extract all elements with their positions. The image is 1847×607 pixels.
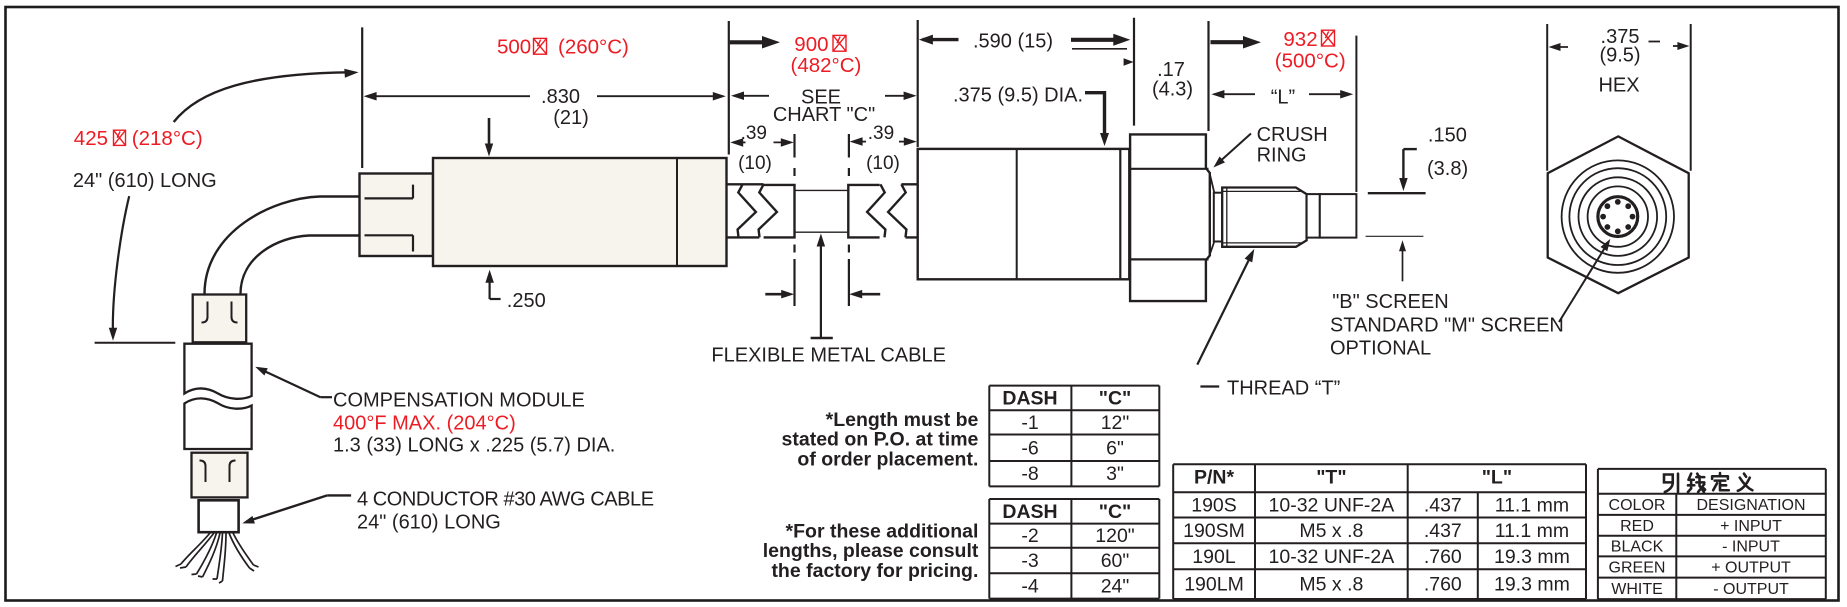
- extension line x=794.5 (dashed): [793, 134, 795, 306]
- svg-text:-1: -1: [1021, 412, 1038, 434]
- hex view extension line left: [1546, 24, 1548, 171]
- svg-text:*Length must be: *Length must be: [826, 409, 979, 431]
- flexible cable band right edges: [901, 184, 917, 237]
- svg-text:19.3 mm: 19.3 mm: [1494, 574, 1570, 596]
- svg-text:11.1 mm: 11.1 mm: [1495, 494, 1569, 516]
- table DASH/C upper: [989, 385, 1159, 387]
- svg-text:-3: -3: [1021, 550, 1038, 572]
- table lead-wire definition: [1598, 468, 1826, 470]
- second body: [918, 149, 1130, 279]
- dim .39 right: [853, 141, 867, 143]
- svg-text:.250: .250: [507, 290, 546, 312]
- svg-text:-2: -2: [1021, 525, 1038, 547]
- missing-glyph box: [534, 38, 547, 54]
- svg-text:190LM: 190LM: [1184, 574, 1244, 596]
- dim .39 left: [733, 141, 746, 143]
- extension line x=1134: [1133, 18, 1135, 126]
- extension line x=362: [361, 27, 363, 168]
- missing-glyph box: [114, 130, 126, 145]
- thread relief line: [1226, 188, 1228, 247]
- missing-glyph box: [1322, 30, 1335, 46]
- screen tip: [1320, 194, 1357, 238]
- leader thread T: [1197, 255, 1251, 365]
- dim .375 hex arrows: [1552, 46, 1569, 48]
- tick after .375: [1649, 41, 1661, 43]
- svg-text:(3.8): (3.8): [1427, 158, 1468, 180]
- svg-text:.150: .150: [1428, 124, 1467, 146]
- flexible metal cable pointer arrow: [820, 240, 822, 338]
- svg-text:4 CONDUCTOR #30 AWG CABLE: 4 CONDUCTOR #30 AWG CABLE: [357, 489, 654, 511]
- leader to connector face: [1559, 244, 1608, 323]
- dim .250 elbow arrow: [489, 275, 491, 299]
- connector crimp marks: [365, 185, 414, 199]
- white block right: [848, 185, 879, 238]
- bottom connector marks: [200, 461, 206, 483]
- svg-text:BLACK: BLACK: [1611, 539, 1664, 556]
- svg-text:WHITE: WHITE: [1611, 581, 1663, 598]
- svg-text:.590 (15): .590 (15): [973, 31, 1053, 53]
- svg-text:"C": "C": [1099, 387, 1132, 409]
- hexagon outline: [1548, 136, 1689, 293]
- crush ring: [1210, 174, 1215, 255]
- break stroke D: [888, 184, 906, 237]
- svg-text:12": 12": [1101, 412, 1130, 434]
- svg-text:.39: .39: [741, 123, 767, 144]
- svg-text:6": 6": [1106, 437, 1124, 459]
- svg-text:.760: .760: [1424, 546, 1462, 568]
- module bottom connector: [192, 453, 248, 498]
- svg-text:"C": "C": [1099, 501, 1132, 523]
- cable wire upper (from connector, 90-degree bend): [205, 197, 361, 295]
- svg-text:DASH: DASH: [1002, 501, 1057, 523]
- svg-text:.830: .830: [541, 86, 580, 108]
- svg-text:CHART "C": CHART "C": [773, 104, 875, 126]
- table DASH/C lower: [989, 498, 1159, 500]
- svg-text:(9.5): (9.5): [1599, 45, 1640, 67]
- second body neck line: [1119, 149, 1121, 279]
- CJK header 引线定义 drawn as strokes: [1664, 473, 1752, 492]
- main body: [433, 158, 727, 266]
- svg-text:P/N*: P/N*: [1194, 467, 1235, 489]
- boss: [1307, 194, 1320, 238]
- svg-text:(10): (10): [866, 153, 900, 174]
- curved leader to x=362 line (425F): [174, 72, 350, 122]
- svg-text:190L: 190L: [1192, 546, 1236, 568]
- svg-text:THREAD “T”: THREAD “T”: [1227, 377, 1340, 399]
- label thread T: [1200, 385, 1219, 387]
- svg-text:-4: -4: [1021, 575, 1038, 597]
- module top connector: [193, 295, 247, 343]
- cable end block: [199, 500, 239, 532]
- hex nut upper face line: [1130, 168, 1208, 170]
- svg-text:24" (610) LONG: 24" (610) LONG: [73, 170, 217, 192]
- svg-text:"T": "T": [1316, 467, 1346, 489]
- dim .150 bracket arrow: [1402, 149, 1404, 185]
- extension line x=729: [728, 21, 730, 155]
- pointer arrow 900F: [730, 40, 763, 44]
- break stroke A: [738, 184, 756, 237]
- svg-text:+ INPUT: + INPUT: [1720, 518, 1782, 535]
- svg-text:.760: .760: [1424, 574, 1462, 596]
- svg-text:M5 x .8: M5 x .8: [1299, 574, 1363, 596]
- middle thin section: [795, 190, 848, 232]
- svg-text:400°F MAX. (204°C): 400°F MAX. (204°C): [333, 413, 516, 435]
- svg-text:the factory for pricing.: the factory for pricing.: [771, 560, 978, 582]
- svg-text:STANDARD "M" SCREEN: STANDARD "M" SCREEN: [1330, 315, 1564, 337]
- svg-text:11.1 mm: 11.1 mm: [1495, 520, 1569, 542]
- thread inner lines: [1222, 191, 1301, 243]
- svg-text:425: 425: [74, 127, 108, 150]
- svg-text:RING: RING: [1257, 144, 1307, 166]
- svg-text:.39: .39: [868, 123, 894, 144]
- see chart C arrows: [734, 95, 769, 97]
- connector pins: [1615, 228, 1621, 234]
- svg-text:RED: RED: [1620, 518, 1654, 535]
- svg-text:- INPUT: - INPUT: [1722, 539, 1780, 556]
- upper reference line at tip: [1368, 192, 1426, 194]
- cable wire lower: [241, 236, 361, 295]
- svg-text:of order placement.: of order placement.: [797, 449, 978, 471]
- svg-text:COLOR: COLOR: [1609, 497, 1666, 514]
- reference line under 425 arrow: [95, 342, 176, 344]
- svg-text:10-32 UNF-2A: 10-32 UNF-2A: [1269, 546, 1395, 568]
- break stroke B: [759, 184, 777, 237]
- svg-text:"L": "L": [1482, 467, 1512, 489]
- svg-text:190S: 190S: [1191, 494, 1237, 516]
- top connector marks: [202, 302, 208, 323]
- svg-text:(482°C): (482°C): [791, 54, 862, 77]
- svg-text:19.3 mm: 19.3 mm: [1494, 546, 1570, 568]
- svg-text:- OUTPUT: - OUTPUT: [1713, 581, 1789, 598]
- svg-text:(500°C): (500°C): [1275, 50, 1346, 73]
- svg-text:.375 (9.5) DIA.: .375 (9.5) DIA.: [953, 85, 1083, 107]
- svg-text:stated on P.O. at time: stated on P.O. at time: [782, 429, 979, 451]
- leader compensation module: [320, 396, 332, 398]
- lower reference line at tip: [1366, 235, 1424, 237]
- svg-text:(260°C): (260°C): [558, 36, 629, 59]
- missing-glyph box: [833, 35, 846, 51]
- svg-text:190SM: 190SM: [1183, 520, 1245, 542]
- hex view extension line right: [1690, 24, 1692, 171]
- svg-text:COMPENSATION MODULE: COMPENSATION MODULE: [333, 390, 585, 412]
- svg-text:24" (610) LONG: 24" (610) LONG: [357, 511, 501, 533]
- pointer arrow 932F: [1211, 40, 1245, 44]
- dim .830: [367, 95, 531, 97]
- svg-text:24": 24": [1101, 575, 1130, 597]
- dim .590: [923, 38, 959, 41]
- svg-text:GREEN: GREEN: [1609, 560, 1666, 577]
- extension line x=848.9 (dashed): [848, 134, 850, 306]
- break stroke C: [867, 184, 885, 237]
- extension line x=1208.5: [1207, 21, 1209, 131]
- svg-text:3": 3": [1106, 463, 1124, 485]
- second body divider: [1016, 149, 1018, 279]
- dim L: [1215, 93, 1255, 95]
- svg-text:120": 120": [1095, 525, 1135, 547]
- connector block at body: [360, 174, 434, 257]
- svg-text:"B" SCREEN: "B" SCREEN: [1332, 291, 1448, 313]
- table P/N: [1173, 463, 1586, 465]
- frayed wires: [176, 533, 211, 567]
- svg-text:-6: -6: [1021, 437, 1038, 459]
- svg-text:*For these additional: *For these additional: [786, 520, 979, 542]
- B screen up arrow: [1402, 246, 1404, 282]
- svg-text:CRUSH: CRUSH: [1257, 124, 1328, 146]
- svg-text:OPTIONAL: OPTIONAL: [1330, 338, 1431, 360]
- svg-text:DESIGNATION: DESIGNATION: [1696, 497, 1805, 514]
- small arrow at x=1134: [1124, 58, 1134, 66]
- svg-text:DASH: DASH: [1002, 387, 1057, 409]
- white block left: [764, 185, 795, 238]
- hex nut lower face line: [1130, 258, 1208, 260]
- svg-text:(21): (21): [553, 107, 589, 129]
- leader curve 24inch long: [113, 196, 129, 333]
- dim .375 dia leader: [1085, 93, 1105, 139]
- threaded section: [1222, 188, 1306, 247]
- svg-text:“L”: “L”: [1271, 87, 1295, 109]
- svg-text:M5 x .8: M5 x .8: [1299, 520, 1363, 542]
- svg-text:FLEXIBLE METAL CABLE: FLEXIBLE METAL CABLE: [711, 345, 946, 367]
- svg-text:(218°C): (218°C): [132, 127, 203, 150]
- svg-text:+ OUTPUT: + OUTPUT: [1711, 560, 1791, 577]
- hex nut side view: [1130, 134, 1210, 301]
- leader crush ring: [1217, 134, 1252, 165]
- svg-text:HEX: HEX: [1598, 75, 1639, 97]
- svg-text:(4.3): (4.3): [1152, 78, 1193, 100]
- flexible cable band left edges: [727, 184, 764, 237]
- svg-text:(10): (10): [738, 153, 772, 174]
- compensation module upper part with wavy break: [184, 344, 251, 399]
- svg-text:932: 932: [1283, 28, 1317, 51]
- down arrow into body top: [488, 118, 491, 150]
- svg-text:.437: .437: [1424, 494, 1462, 516]
- svg-text:-8: -8: [1021, 463, 1038, 485]
- leader 4 conductor cable: [327, 494, 351, 496]
- extension line x=1356.4: [1355, 36, 1357, 192]
- extension line x=917.7: [917, 20, 919, 147]
- concentric circles connector face: [1562, 160, 1674, 272]
- compensation module lower part with wavy break: [184, 398, 251, 449]
- main body divider: [676, 158, 678, 266]
- svg-text:1.3 (33) LONG x .225 (5.7) DIA: 1.3 (33) LONG x .225 (5.7) DIA.: [333, 435, 615, 457]
- svg-text:60": 60": [1101, 550, 1130, 572]
- svg-text:.437: .437: [1424, 520, 1462, 542]
- svg-text:900: 900: [794, 33, 828, 56]
- svg-text:500: 500: [497, 36, 531, 59]
- chart C inward arrows below: [765, 293, 789, 296]
- svg-text:10-32 UNF-2A: 10-32 UNF-2A: [1269, 494, 1395, 516]
